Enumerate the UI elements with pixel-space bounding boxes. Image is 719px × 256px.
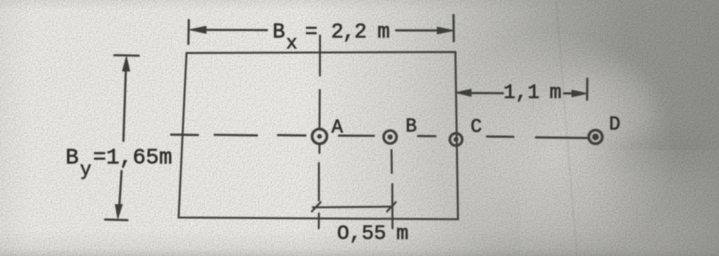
centerline horizontal: dash 4	[418, 135, 436, 137]
dimension 1,1m: left line	[468, 92, 503, 94]
point A: ring	[312, 129, 327, 144]
line below B: tick	[391, 150, 393, 173]
dimension By: bottom T-bar	[105, 218, 128, 221]
centerline vertical: dash below A	[318, 163, 320, 201]
rectangle outline (slab plan)	[179, 52, 458, 219]
dimension Bx: left arrowhead	[190, 26, 206, 33]
centerline horizontal: long dash to D	[536, 136, 587, 139]
dimension 1,1m: right extension bar	[586, 79, 588, 100]
centerline vertical: tail below A	[318, 145, 320, 153]
point A: center dot	[317, 134, 322, 139]
dimension 1,1m: left arrowhead at wall	[456, 89, 471, 96]
dimension 0,55m: left oblique tick	[312, 202, 321, 211]
dimension Bx: right arrowhead	[437, 27, 453, 34]
dimension Bx: left extension bar	[187, 20, 190, 44]
centerline horizontal: dash 1	[215, 134, 257, 137]
point C: center dot	[454, 137, 459, 142]
dimension 1,1m: right arrowhead	[572, 90, 587, 96]
dimension Bx: right extension bar	[452, 15, 454, 41]
centerline vertical: dash across bottom wall	[318, 214, 320, 229]
line below B: dash to bottom dimension	[391, 184, 393, 228]
centerline horizontal: dash 2	[278, 134, 306, 137]
centerline horizontal: tick across left wall	[171, 134, 198, 137]
dimension Bx: right line segment	[396, 29, 439, 31]
centerline vertical: tick across top wall	[319, 36, 321, 76]
edge shading	[0, 230, 719, 256]
point D: ring	[589, 130, 603, 144]
point B: center dot	[388, 134, 393, 139]
centerline horizontal: dash 3	[339, 135, 374, 137]
dimension 1,1m: right line	[564, 92, 575, 94]
point C: ring	[450, 133, 462, 145]
centerline horizontal: dash 5	[487, 135, 514, 138]
dimension By: top T-bar	[114, 54, 139, 57]
dimension By: lower line	[119, 171, 121, 205]
dimension 0,55m: line	[313, 206, 392, 209]
centerline vertical: dash above A	[319, 90, 321, 128]
dimension Bx: left line segment	[200, 29, 267, 31]
dimension By: down arrowhead	[115, 205, 122, 219]
point B: ring	[384, 131, 397, 144]
point D: center dot	[592, 134, 599, 141]
dimension By: upper line	[123, 60, 126, 141]
paper crease line	[556, 0, 577, 256]
dimension 0,55m: right oblique tick	[387, 202, 396, 211]
dimension By: up arrowhead	[123, 57, 130, 71]
